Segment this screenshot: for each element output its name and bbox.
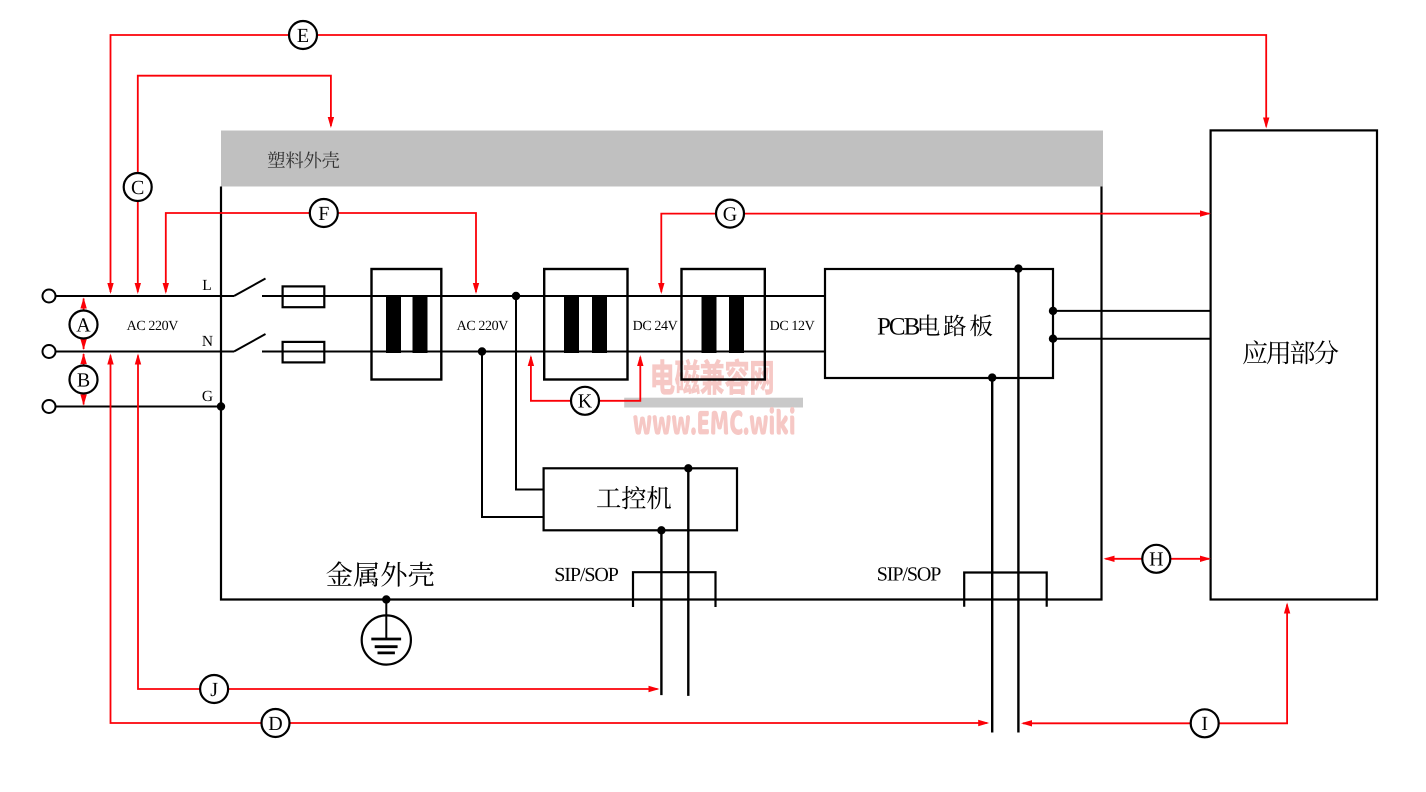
measurement B: line-to-ground N-G (70, 353, 98, 406)
svg-text:B: B (77, 369, 90, 391)
terminal input G (43, 400, 56, 413)
watermark underline bar (624, 398, 803, 408)
node: IPC bottom edge to SIP/SOP pin (657, 526, 665, 534)
transformer T1 isolation (AC 220V) (372, 269, 442, 380)
svg-text:F: F (318, 203, 329, 225)
wire L: switch to PCB through fuse and transformers (262, 295, 825, 297)
svg-text:DC 12V: DC 12V (770, 319, 815, 334)
plastic enclosure bar (塑料外壳) (221, 131, 1103, 187)
svg-text:G: G (202, 388, 213, 405)
svg-text:SIP/SOP: SIP/SOP (877, 564, 941, 586)
svg-text:N: N (202, 333, 213, 350)
svg-text:D: D (268, 713, 282, 735)
measurement F: to L wire and AC220V wire after T1 (163, 199, 480, 294)
label 金属外壳 (327, 561, 434, 586)
wire: PCB output 2 to application (1053, 338, 1211, 340)
node: PCB right edge output 2 (1049, 335, 1057, 343)
label PCB电路板 (877, 314, 992, 341)
node: N wire junction to IPC (478, 347, 486, 355)
terminal input N (43, 345, 56, 358)
svg-text:C: C (131, 177, 144, 199)
pin: PCB through SIP/SOP connector 2 (left) (991, 378, 993, 733)
svg-text:DC 24V: DC 24V (633, 319, 678, 334)
node: PCB bottom edge pin (988, 373, 996, 381)
svg-text:PCB: PCB (877, 314, 920, 341)
measurement G: to DC24V wire and application part (658, 200, 1211, 294)
PCB board box (PCB电路板) (825, 269, 1053, 378)
application part box (应用部分) (1211, 130, 1377, 599)
wire: PCB output 1 to application (1053, 310, 1211, 312)
node: PCB top edge pin (1014, 264, 1022, 272)
switch S2 blade (N) (234, 334, 266, 352)
IPC box (工控机) (544, 468, 737, 530)
wire L: terminal to switch S1 (56, 295, 235, 297)
pin: PCB through SIP/SOP connector 2 (right) (1017, 269, 1019, 733)
measurement C: to L wire and plastic enclosure (124, 76, 334, 294)
svg-text:E: E (297, 25, 309, 47)
label 应用部分 (1243, 340, 1338, 364)
pin: IPC through SIP/SOP connector 1 (left) (660, 530, 662, 695)
svg-text:J: J (210, 679, 218, 701)
connector SIP/SOP 1 (633, 572, 716, 607)
measurement E: to L wire and application part (107, 21, 1269, 294)
label 塑料外壳 (268, 151, 339, 168)
fuse FU1 (L line) (283, 286, 325, 307)
svg-text:SIP/SOP: SIP/SOP (554, 564, 618, 586)
svg-text:AC 220V: AC 220V (127, 319, 179, 334)
node: IPC top edge to SIP/SOP pin (684, 464, 692, 472)
transformer T2 AC-DC converter (DC 24V out) (544, 269, 627, 380)
wire: N junction down to IPC (工控机) (482, 352, 544, 518)
wire G: terminal to metal enclosure (56, 406, 222, 408)
node: enclosure bottom to ground (382, 595, 390, 603)
wire N: terminal to switch S2 (56, 351, 235, 353)
svg-text:K: K (578, 391, 593, 413)
switch S1 blade (L) (234, 279, 266, 297)
node: L wire junction to IPC (512, 292, 520, 300)
fuse FU2 (N line) (283, 342, 325, 363)
node: PCB right edge output 1 (1049, 307, 1057, 315)
label 工控机 (597, 486, 671, 509)
terminal input L (43, 290, 56, 303)
measurement I: SIP/SOP 2 pin to application part bottom (1021, 603, 1290, 738)
measurement K: across T2 output wire (528, 355, 644, 415)
pin: IPC through SIP/SOP connector 1 (right) (687, 468, 689, 696)
metal enclosure outline (open top) (221, 187, 1102, 600)
transformer T3 DC-DC converter (DC 12V out) (682, 269, 765, 380)
svg-text:AC 220V: AC 220V (457, 319, 509, 334)
measurement D: N wire to SIP/SOP 2 pin (107, 354, 989, 738)
measurement J: N wire to SIP/SOP 1 pin (135, 354, 660, 704)
watermark 电磁兼容网 (652, 358, 773, 394)
svg-text:I: I (1201, 713, 1208, 735)
svg-text:H: H (1149, 549, 1163, 571)
svg-text:L: L (202, 277, 211, 294)
connector SIP/SOP 2 (964, 573, 1046, 607)
wire N: switch to PCB through fuse and transformers (262, 351, 825, 353)
measurement H: enclosure to application part gap (1104, 545, 1212, 573)
node: G wire to enclosure (217, 402, 225, 410)
wire: L junction down to IPC (工控机) (516, 296, 544, 490)
svg-text:A: A (76, 314, 91, 336)
measurement A: line-to-line voltage L-N (70, 298, 98, 351)
watermark www.EMC.wiki (633, 407, 794, 435)
svg-text:G: G (723, 203, 737, 225)
ground symbol (protective earth) (362, 600, 411, 665)
